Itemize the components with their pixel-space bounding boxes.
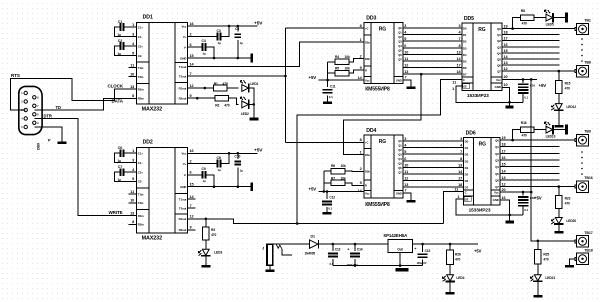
pins left DD1 (1,3,4,5,11,10,13,8) <box>129 23 137 99</box>
svg-text:R1out: R1out <box>179 217 187 221</box>
wire DD6 Q0 to TB9 <box>500 139 575 141</box>
svg-text:C3: C3 <box>217 29 221 33</box>
svg-text:DD2: DD2 <box>143 139 153 145</box>
svg-text:5: 5 <box>404 37 406 41</box>
svg-text:R3: R3 <box>211 228 215 232</box>
LED LED12 <box>551 104 563 111</box>
svg-text:10: 10 <box>404 163 408 167</box>
svg-text:TB9: TB9 <box>584 130 591 134</box>
wire DD5 Q7 to TB8 <box>502 70 575 72</box>
svg-text:P: P <box>48 138 51 143</box>
LED LED21 <box>530 275 542 282</box>
svg-text:D1: D1 <box>463 33 467 37</box>
svg-text:10k: 10k <box>341 164 346 168</box>
svg-text:T1out: T1out <box>179 198 187 202</box>
svg-text:10k: 10k <box>341 176 346 180</box>
svg-text:8: 8 <box>132 220 134 224</box>
wire DATA bus: DD1 pin14 to DD3 data input <box>196 42 365 66</box>
wire WRITE to DD6 latch clock <box>444 192 464 224</box>
svg-text:Q3: Q3 <box>495 159 499 163</box>
svg-text:Q0: Q0 <box>497 27 501 31</box>
pins right DD2 (16,2,6,15,14,7,12,9) <box>188 149 196 230</box>
svg-text:R1: R1 <box>214 82 218 86</box>
svg-text:V-: V- <box>184 45 187 49</box>
svg-text:R2out: R2out <box>179 97 187 101</box>
svg-text:1µ: 1µ <box>118 52 122 56</box>
wire DD5 Q0 to TB1 <box>502 28 575 30</box>
svg-text:13: 13 <box>456 50 460 54</box>
capacitor C4 <box>196 39 216 59</box>
ground (DD1 pin15) <box>250 54 253 63</box>
svg-text:0.1: 0.1 <box>524 208 528 212</box>
svg-text:100µ16V: 100µ16V <box>417 261 427 265</box>
wire R8 to LED5 <box>534 17 546 19</box>
ground (LED21) <box>533 295 542 298</box>
svg-text:D4: D4 <box>463 53 467 57</box>
svg-text:1000µ25V: 1000µ25V <box>347 263 358 267</box>
svg-text:R5: R5 <box>335 67 339 71</box>
shift register DD4 KM555IR8 body <box>364 135 403 198</box>
dotted line TB1..TB8 <box>581 38 583 62</box>
svg-text:DTR: DTR <box>44 113 52 118</box>
svg-text:OE: OE <box>465 197 469 201</box>
terminal TB9 <box>575 130 591 146</box>
wire LED13 to ground <box>553 129 565 131</box>
svg-text:D0b: D0b <box>365 57 370 61</box>
wire WRITE branch to DD5 latch clock <box>297 79 462 223</box>
capacitor C14 1000u 25V <box>347 244 363 267</box>
svg-text:Q6: Q6 <box>398 166 402 170</box>
svg-text:2: 2 <box>360 167 362 171</box>
ground (regulator) <box>396 268 409 271</box>
svg-text:15: 15 <box>190 183 194 187</box>
svg-text:6: 6 <box>404 157 406 161</box>
svg-text:D0: D0 <box>465 140 469 144</box>
svg-text:T1in: T1in <box>138 66 144 70</box>
ground (TB18) <box>565 265 574 268</box>
wire LED2 to ground rail <box>249 103 254 105</box>
svg-text:C2: C2 <box>118 39 122 43</box>
svg-text:R23: R23 <box>565 197 571 201</box>
svg-text:RTS: RTS <box>11 73 20 78</box>
svg-text:R1in: R1in <box>138 214 144 218</box>
pins DD6 right outputs <box>502 136 507 187</box>
svg-text:OE: OE <box>463 84 467 88</box>
capacitor C1 <box>114 20 128 37</box>
wire LED12 to ground <box>558 110 560 125</box>
svg-text:0.1: 0.1 <box>329 95 333 99</box>
svg-text:TB16: TB16 <box>584 176 592 180</box>
svg-text:10: 10 <box>504 83 508 87</box>
ground (LED20) <box>554 231 563 234</box>
svg-text:9: 9 <box>190 226 192 230</box>
svg-text:Q3: Q3 <box>398 153 402 157</box>
svg-text:C12: C12 <box>329 196 335 200</box>
svg-text:WRITE: WRITE <box>109 210 123 215</box>
svg-text:C15: C15 <box>425 249 431 253</box>
svg-text:R2: R2 <box>215 104 219 108</box>
wire +5V to R6 R7 pullups and DD4 Vcc <box>319 171 365 193</box>
wire R2 to LED2 <box>229 98 239 104</box>
wire DD5 OE to ground <box>456 86 523 102</box>
svg-text:Q4: Q4 <box>398 44 402 48</box>
wire LED5 to ground <box>553 17 565 19</box>
svg-text:11: 11 <box>404 170 408 174</box>
svg-text:18: 18 <box>504 31 508 35</box>
svg-text:Q1: Q1 <box>398 31 402 35</box>
svg-text:16: 16 <box>502 156 506 160</box>
ground (DD5) <box>505 106 513 109</box>
svg-text:470: 470 <box>543 257 548 261</box>
wire R1 to LED1 <box>227 87 238 89</box>
svg-text:1µ: 1µ <box>240 41 244 45</box>
svg-text:+5V: +5V <box>254 148 263 154</box>
LED LED20 <box>551 218 563 225</box>
svg-text:7: 7 <box>405 76 407 80</box>
wire R15 to LED12 <box>558 94 560 104</box>
svg-text:Q0: Q0 <box>398 139 402 143</box>
ground (C12) <box>323 212 332 215</box>
wire R16 to LED13 <box>534 129 546 131</box>
svg-text:LED21: LED21 <box>545 276 555 280</box>
svg-text:5: 5 <box>132 51 134 55</box>
svg-text:Q4: Q4 <box>497 51 501 55</box>
diode D1 1N4005 <box>305 234 319 255</box>
svg-text:18: 18 <box>456 70 460 74</box>
svg-text:11: 11 <box>454 187 458 191</box>
svg-text:T2in: T2in <box>138 75 144 79</box>
pins DD6 left (3,4,7,8,13,14,17,18) <box>458 137 463 187</box>
pins DD5 left (3,4,7,8,13,14,17,18) <box>456 24 461 74</box>
svg-text:8: 8 <box>360 138 362 142</box>
svg-text:3: 3 <box>404 24 406 28</box>
svg-text:Q7: Q7 <box>398 58 402 62</box>
wire CLOCK bus: DD1 pin7 to DD3 and DD4 clock inputs <box>196 75 286 77</box>
svg-text:C2-: C2- <box>138 54 142 58</box>
svg-text:C7: C7 <box>118 165 122 169</box>
svg-text:GND: GND <box>180 185 186 189</box>
svg-text:1N4005: 1N4005 <box>305 252 316 256</box>
svg-text:2: 2 <box>190 32 192 36</box>
svg-text:Q0: Q0 <box>398 26 402 30</box>
svg-text:LED2: LED2 <box>241 112 249 116</box>
wire DD5 GND pin10 <box>502 88 510 106</box>
svg-text:LED20: LED20 <box>566 219 576 223</box>
svg-text:RG: RG <box>379 139 387 145</box>
pins right DD3 outputs (3,4,5,6,10,11,12,13) <box>404 24 408 74</box>
svg-text:LED1: LED1 <box>250 82 258 86</box>
svg-text:C13: C13 <box>335 248 341 252</box>
svg-text:Q5: Q5 <box>398 162 402 166</box>
wire GND rail DD2 pin15 <box>196 186 251 188</box>
svg-text:Q2: Q2 <box>398 35 402 39</box>
op-amp DD2 MAX232 IC body <box>137 147 188 233</box>
svg-text:C9: C9 <box>202 167 206 171</box>
wire WRITE net from DD2 pin12 <box>196 219 444 224</box>
svg-text:18: 18 <box>458 183 462 187</box>
svg-text:D0a: D0a <box>365 153 370 157</box>
wire TD net: DB9 pin to DD1 pin8 (DATA) <box>34 109 78 111</box>
svg-text:D5: D5 <box>465 173 469 177</box>
svg-text:R6: R6 <box>331 164 335 168</box>
svg-text:DB9: DB9 <box>37 143 41 150</box>
svg-text:D7: D7 <box>465 186 469 190</box>
svg-text:1533ИР23: 1533ИР23 <box>469 208 491 214</box>
svg-text:D0: D0 <box>463 27 467 31</box>
connector P DB9 female <box>19 86 42 134</box>
wire DD6 Q1-Q6 stubs <box>500 147 560 180</box>
svg-text:R1in: R1in <box>138 87 144 91</box>
svg-text:D1: D1 <box>311 234 315 238</box>
svg-text:C11: C11 <box>330 84 336 88</box>
wire R25 to LED21 <box>537 264 539 275</box>
wire DD6 Vcc pin20 to +5V rail <box>500 191 531 193</box>
svg-text:470: 470 <box>522 21 527 25</box>
wire regulator output <box>412 243 478 245</box>
ground (LED13) <box>565 125 568 135</box>
svg-text:12: 12 <box>404 64 408 68</box>
svg-text:Vcc: Vcc <box>365 78 370 82</box>
terminal TB16 <box>575 176 593 192</box>
svg-text:C1-: C1- <box>138 35 142 39</box>
svg-text:1: 1 <box>452 87 454 91</box>
svg-text:Q2: Q2 <box>495 152 499 156</box>
svg-text:Q7: Q7 <box>497 70 501 74</box>
svg-text:RG: RG <box>478 27 486 33</box>
svg-text:5: 5 <box>132 177 134 181</box>
svg-text:11: 11 <box>130 190 134 194</box>
svg-text:3: 3 <box>458 24 460 28</box>
wire DD1 pin12 row <box>196 87 214 89</box>
wire DB9 ground pin <box>34 127 62 142</box>
ground (DD2 pin15) <box>250 182 253 191</box>
resistor R3 470 <box>203 219 217 240</box>
svg-text:470: 470 <box>223 82 229 86</box>
wire ground bus (power supply) <box>333 265 423 267</box>
svg-text:+5V: +5V <box>309 187 317 192</box>
svg-text:TB18: TB18 <box>584 248 592 252</box>
ground (DD4) <box>406 200 415 203</box>
svg-text:8: 8 <box>460 157 462 161</box>
wire DD1 pin9 row <box>196 97 215 99</box>
ground (LED12) <box>554 125 563 128</box>
svg-text:17: 17 <box>502 149 506 153</box>
svg-text:Q6: Q6 <box>495 179 499 183</box>
svg-text:1: 1 <box>132 149 134 153</box>
svg-text:20: 20 <box>504 75 508 79</box>
svg-text:3: 3 <box>404 137 406 141</box>
resistor R1 470 <box>214 82 229 91</box>
svg-text:C2+: C2+ <box>138 44 143 48</box>
svg-text:Q4: Q4 <box>398 157 402 161</box>
svg-text:11: 11 <box>452 81 456 85</box>
ground (DD3) <box>406 86 415 89</box>
svg-text:Q5: Q5 <box>398 49 402 53</box>
wire DD6 GND pin16 <box>500 200 510 220</box>
svg-text:Q3: Q3 <box>497 45 501 49</box>
svg-text:Q1: Q1 <box>497 33 501 37</box>
svg-text:GND: GND <box>493 198 499 202</box>
svg-text:8: 8 <box>132 94 134 98</box>
svg-text:R4: R4 <box>335 55 339 59</box>
svg-text:Q1: Q1 <box>495 145 499 149</box>
pins left DD4 (8,1,2,9,14) <box>358 138 363 193</box>
svg-text:C2+: C2+ <box>138 170 143 174</box>
svg-text:13: 13 <box>130 211 134 215</box>
svg-text:TD: TD <box>56 105 61 110</box>
svg-text:Q2: Q2 <box>398 148 402 152</box>
svg-text:R2in: R2in <box>138 97 144 101</box>
svg-text:C1-: C1- <box>138 161 142 165</box>
capacitor C15 100u 16V <box>414 244 430 266</box>
wire LED1 to ground rail <box>249 88 254 118</box>
pins left DD3 (8,1,2,9,14) <box>358 24 363 80</box>
svg-text:470: 470 <box>522 133 527 137</box>
capacitor C18 C19 (DD6 bypass) <box>518 192 536 215</box>
svg-text:R26: R26 <box>455 253 461 257</box>
svg-text:D1: D1 <box>465 146 469 150</box>
svg-text:C5: C5 <box>235 27 239 31</box>
wire D1 to regulator <box>318 243 388 245</box>
svg-text:DD4: DD4 <box>366 128 376 134</box>
svg-text:Vcc: Vcc <box>181 152 186 156</box>
ground (J) <box>265 270 274 273</box>
svg-text:1: 1 <box>360 150 362 154</box>
svg-text:11: 11 <box>404 57 408 61</box>
svg-text:CLOCK: CLOCK <box>108 84 124 89</box>
svg-text:J: J <box>262 246 264 250</box>
svg-text:7: 7 <box>405 189 407 193</box>
svg-text:13: 13 <box>458 163 462 167</box>
svg-text:Q0: Q0 <box>495 139 499 143</box>
wire R3 to LED3 <box>205 240 207 249</box>
terminal TB17 <box>575 231 593 247</box>
wire RTS net: DB9 pin to DD1 pin13 (CLOCK) <box>11 78 129 110</box>
svg-text:TB1: TB1 <box>584 19 591 23</box>
svg-text:LED4: LED4 <box>456 276 464 280</box>
wire TB18 to ground <box>570 259 575 265</box>
svg-text:13: 13 <box>504 61 508 65</box>
capacitor C5 <box>235 25 244 60</box>
svg-text:GND: GND <box>396 78 402 82</box>
svg-text:470: 470 <box>565 87 570 91</box>
pins right DD4 outputs (3,4,5,6,10,11,12,13) <box>404 137 408 187</box>
svg-text:18: 18 <box>502 143 506 147</box>
resistor R25 470 <box>535 241 550 264</box>
terminal TB18 <box>575 248 593 264</box>
resistor R2 470 <box>215 95 230 107</box>
svg-text:T1out: T1out <box>179 65 187 69</box>
svg-text:19: 19 <box>502 136 506 140</box>
regulator KR142EN5A <box>384 233 413 252</box>
svg-text:D5: D5 <box>463 60 467 64</box>
capacitor C16 C17 (DD5 bypass) <box>518 79 536 102</box>
svg-text:3: 3 <box>132 158 134 162</box>
svg-text:T1in: T1in <box>138 192 144 196</box>
capacitor C10 <box>234 152 243 188</box>
wire LED4 to ground <box>449 281 451 292</box>
svg-text:D0b: D0b <box>365 170 370 174</box>
svg-text:C16: C16 <box>530 83 536 87</box>
svg-text:12: 12 <box>190 215 194 219</box>
svg-text:9: 9 <box>360 181 362 185</box>
svg-text:12: 12 <box>502 183 506 187</box>
svg-text:DATA: DATA <box>112 98 124 103</box>
svg-text:R1out: R1out <box>179 86 187 90</box>
ground (DD6) <box>506 221 514 224</box>
svg-text:D6: D6 <box>465 179 469 183</box>
resistor R26 470 <box>447 244 461 265</box>
resistor R7 10k <box>331 176 364 185</box>
LED LED5 <box>545 10 553 22</box>
pins right DD1 (16,2,6,15,14,7,12,9) <box>188 22 196 98</box>
op-amp DD1 MAX232 IC body <box>137 23 188 104</box>
capacitor C8 <box>196 152 231 172</box>
ground (LED3) <box>201 265 210 268</box>
dotted line TB9..TB16 <box>581 151 583 175</box>
svg-text:7: 7 <box>190 204 192 208</box>
wire LED21 to ground <box>537 281 539 295</box>
svg-text:GND: GND <box>396 191 402 195</box>
svg-text:3: 3 <box>132 32 134 36</box>
svg-text:0.1: 0.1 <box>328 206 332 210</box>
svg-text:TB8: TB8 <box>584 61 591 65</box>
svg-text:1µ: 1µ <box>118 178 122 182</box>
svg-text:1µ: 1µ <box>118 159 122 163</box>
wire DD5 Vcc pin20 to +5V <box>502 78 537 80</box>
svg-text:GND: GND <box>180 56 186 60</box>
svg-text:12: 12 <box>504 67 508 71</box>
svg-text:1: 1 <box>132 23 134 27</box>
svg-text:470: 470 <box>455 258 460 262</box>
svg-text:1µ: 1µ <box>218 168 222 172</box>
svg-text:+5V: +5V <box>474 249 482 254</box>
capacitor C9 <box>196 167 216 188</box>
svg-text:10: 10 <box>130 199 134 203</box>
svg-text:Q5: Q5 <box>497 57 501 61</box>
svg-text:13: 13 <box>502 176 506 180</box>
svg-text:2: 2 <box>190 159 192 163</box>
svg-text:+C: +C <box>365 141 368 145</box>
svg-text:TB17: TB17 <box>584 231 592 235</box>
svg-text:7: 7 <box>460 150 462 154</box>
LED LED2 <box>240 97 248 109</box>
ground (LED1 LED2) <box>249 118 258 121</box>
wire +5V rail DD1 pin16 <box>196 25 258 27</box>
svg-text:V-: V- <box>184 173 187 177</box>
wire DD4 GND pin7 <box>403 193 411 200</box>
svg-text:1: 1 <box>457 195 459 199</box>
svg-text:16: 16 <box>502 196 506 200</box>
wire J to ground <box>269 265 271 269</box>
svg-text:C6: C6 <box>118 146 122 150</box>
wires DD3 outputs to DD5 inputs (8 lines) <box>403 28 462 74</box>
svg-text:T2in: T2in <box>138 201 144 205</box>
svg-text:10k: 10k <box>345 67 350 71</box>
wire DD6 Q7 to TB16 <box>500 186 575 188</box>
svg-text:КМ555ИР8: КМ555ИР8 <box>365 202 390 208</box>
LED LED4 <box>443 275 455 282</box>
LED LED1 <box>240 81 248 93</box>
wire DD6 OE to ground <box>456 199 523 215</box>
svg-text:13: 13 <box>404 70 408 74</box>
resistor R15 470 <box>556 71 571 94</box>
svg-text:LED12: LED12 <box>566 105 576 109</box>
svg-text:13: 13 <box>130 85 134 89</box>
svg-text:10: 10 <box>404 50 408 54</box>
svg-text:13: 13 <box>404 183 408 187</box>
terminal TB1 <box>575 19 591 35</box>
